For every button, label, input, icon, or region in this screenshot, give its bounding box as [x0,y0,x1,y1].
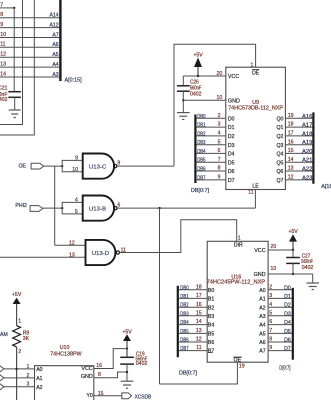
svg-text:12: 12 [69,241,75,247]
wire DB5 to U9 D5 (pin 7) [195,161,225,163]
svg-text:B1: B1 [208,297,214,303]
svg-text:DB5: DB5 [197,157,206,164]
svg-text:2: 2 [18,349,21,355]
wire U13-C input tie [61,160,63,172]
svg-text:0402: 0402 [0,97,8,103]
svg-text:A2: A2 [259,305,265,311]
svg-text:AM: AM [0,332,8,338]
svg-text:7: 7 [0,2,3,8]
wire net A12 (pin 9) [0,27,60,29]
svg-text:19: 19 [288,113,294,119]
wire GND (U10) [94,372,127,378]
wire DB1 to U16 B1 (pin 17) [178,297,207,299]
junction PHI2 at U13-B tie [61,207,63,209]
svg-text:B0: B0 [208,288,214,294]
svg-text:D5: D5 [284,329,291,335]
svg-text:U13-D: U13-D [92,251,109,257]
svg-text:11: 11 [196,345,201,351]
wire DB0 to U9 D0 (pin 2) [195,117,225,119]
svg-text:17: 17 [288,131,294,137]
svg-text:11: 11 [248,190,253,196]
svg-text:+5V: +5V [12,292,22,298]
ic U10 body (clipped) [35,366,94,400]
svg-text:A4: A4 [52,62,58,68]
svg-text:VCC: VCC [81,366,92,372]
svg-text:20: 20 [271,244,277,250]
svg-text:A12: A12 [49,22,58,28]
svg-text:U10: U10 [60,345,70,351]
wire U9 Q5 (pin 14) to A21 [285,161,313,163]
wire U13-D output (pin 11) to U16 DIR [119,220,236,253]
wire U16 A3 (pin 5) to D3 [268,315,293,317]
svg-text:16: 16 [196,302,202,308]
svg-text:A16: A16 [302,114,312,120]
svg-text:Q6: Q6 [276,169,283,175]
wire PHI2 to U13-B inputs [43,207,62,209]
wire U16 A1 (pin 3) to D1 [268,297,293,299]
junction +5V/VCC (U10) [126,347,128,349]
wire vertical crossing 2 (to left, lower) [0,0,34,135]
svg-text:+5V: +5V [122,329,132,335]
capacitor C26 [182,76,184,85]
junction R9/A0 [15,368,17,370]
svg-text:+5V: +5V [193,52,203,58]
svg-text:OE: OE [252,71,260,77]
svg-text:9: 9 [0,22,3,28]
wire U9 Q4 (pin 15) to A20 [285,152,313,154]
svg-text:DB3: DB3 [197,140,206,147]
svg-text:A1: A1 [36,376,42,382]
wire DB4 to U9 D4 (pin 6) [195,152,225,154]
wire DB6 to U9 D6 (pin 8) [195,170,225,172]
svg-text:11: 11 [121,248,126,254]
ic U16 body [207,241,268,362]
wire U9 Q1 (pin 18) to A17 [285,126,313,128]
svg-text:15: 15 [288,148,294,154]
svg-text:Q4: Q4 [276,152,283,158]
svg-text:Q2: Q2 [276,134,283,140]
junction GND/C19 [126,371,128,373]
wire R9 down across A inputs [16,347,18,400]
junction GND/C26 [182,99,184,101]
svg-text:18: 18 [288,122,294,128]
wire to U10 A1 (pin 2) [4,377,35,379]
wire U9 Q7 (pin 12) to A23 [285,179,313,181]
svg-text:D2: D2 [228,134,235,140]
bus A[16:23] [312,112,314,183]
svg-text:0402: 0402 [302,265,314,271]
svg-text:B7: B7 [208,349,214,355]
capacitor C21 [13,8,15,91]
svg-text:18: 18 [196,284,202,290]
svg-text:8: 8 [0,12,3,18]
svg-text:U13-C: U13-C [89,165,106,171]
svg-text:14: 14 [288,157,294,163]
wire net A4 (pin 13) [0,66,60,68]
bus DB[0:7] (U9 side) [194,115,196,184]
wire DB0 to U16 B0 (pin 18) [178,289,207,291]
connector pentagon A2 input (clipped) [0,384,4,390]
svg-text:A20: A20 [302,149,312,155]
svg-text:74HC138PW: 74HC138PW [50,351,82,357]
svg-text:A17: A17 [302,123,312,129]
svg-text:DB4: DB4 [180,320,189,327]
wire GND (U9) [183,99,226,101]
svg-text:D2: D2 [284,303,291,309]
ground (C19) [121,380,134,382]
svg-text:A7: A7 [52,32,58,38]
svg-text:D6: D6 [284,338,291,344]
wire GND (U16) [268,273,313,275]
svg-text:12: 12 [0,52,6,58]
junction +5V/VCC (U16) [292,249,294,251]
svg-text:1: 1 [18,318,21,324]
svg-text:D4: D4 [284,320,291,326]
R9 zigzag [13,326,21,347]
wire U16 OE (pin 19) to U13-B output branch [160,362,238,384]
svg-text:74HC245PW-112_NXP: 74HC245PW-112_NXP [207,280,266,286]
svg-text:A14: A14 [49,13,58,19]
svg-text:14: 14 [196,319,202,325]
svg-text:6: 6 [117,203,120,209]
svg-text:0402: 0402 [136,361,148,367]
svg-text:15: 15 [196,310,202,316]
svg-text:8: 8 [218,166,221,172]
svg-text:DB0: DB0 [180,285,189,292]
svg-text:A5: A5 [259,332,265,338]
svg-text:A6: A6 [52,42,58,48]
svg-text:Q1: Q1 [276,125,283,131]
svg-text:DB6: DB6 [180,337,189,344]
svg-text:DB7: DB7 [197,175,206,182]
svg-text:+5V: +5V [288,229,298,235]
svg-text:B5: B5 [208,332,214,338]
svg-text:U13-B: U13-B [89,207,106,213]
svg-text:DB7: DB7 [180,346,189,353]
svg-text:A0: A0 [36,367,42,373]
svg-text:B3: B3 [208,314,214,320]
svg-text:9: 9 [75,156,78,162]
wire U16 A5 (pin 7) to D5 [268,332,293,334]
svg-text:8: 8 [269,337,272,343]
svg-text:5: 5 [218,139,221,145]
svg-text:DB3: DB3 [180,311,189,318]
svg-text:4: 4 [218,131,221,137]
svg-text:PHI2: PHI2 [15,203,27,209]
wire U13-B input tie [61,202,63,215]
wire net A5 (pin 12) [0,56,60,58]
svg-text:GND: GND [81,374,93,380]
svg-text:560nF: 560nF [190,85,202,91]
wire vertical crossing 1 (to left, upper) [0,0,23,125]
junction U13-B output branch [158,207,160,209]
wire DB6 to U16 B6 (pin 12) [178,341,207,343]
svg-text:XCSDB: XCSDB [135,394,152,400]
nand gate U13-D [86,240,116,265]
svg-text:Q0: Q0 [276,116,283,122]
wire to U10 A2 (pin 3) [4,386,35,388]
svg-text:13: 13 [196,328,202,334]
svg-text:0402: 0402 [190,92,202,98]
svg-text:2: 2 [269,284,272,290]
bus DB[0:7] (U16 side) [177,286,179,358]
wire U13-B pin 4 [62,201,82,203]
svg-text:14: 14 [0,71,6,77]
wire DB3 to U16 B3 (pin 15) [178,315,207,317]
svg-text:D6: D6 [228,169,235,175]
wire DB5 to U16 B5 (pin 13) [178,332,207,334]
wire U16 A0 (pin 2) to D0 [268,289,293,291]
wire DB2 to U16 B2 (pin 16) [178,306,207,308]
ground (C26) [177,112,190,114]
svg-text:DB1: DB1 [180,294,189,301]
svg-text:D1: D1 [284,294,291,300]
svg-text:3: 3 [27,382,30,388]
wire U16 A6 (pin 8) to D6 [268,341,293,343]
svg-text:16: 16 [288,139,294,145]
svg-text:7: 7 [269,328,272,334]
svg-text:2: 2 [218,113,221,119]
svg-text:A21: A21 [302,158,312,164]
svg-text:DB[0:7]: DB[0:7] [191,188,209,194]
svg-text:1: 1 [27,364,30,370]
svg-text:Q5: Q5 [276,160,283,166]
wire U16 A2 (pin 4) to D2 [268,306,293,308]
wire DB4 to U16 B4 (pin 14) [178,324,207,326]
svg-text:7: 7 [218,157,221,163]
capacitor C19 [120,356,134,358]
svg-text:D7: D7 [228,178,235,184]
svg-text:13: 13 [0,62,6,68]
nand gate U13-C [83,154,114,179]
svg-text:DIR: DIR [234,242,243,248]
wire U13-C output (pin 8) to U9 OE [117,165,174,167]
svg-text:DB2: DB2 [180,302,189,309]
svg-text:560nF: 560nF [301,259,313,265]
svg-text:10: 10 [72,167,78,173]
wire branch down to U16 OE [159,208,161,384]
svg-text:D5: D5 [228,160,235,166]
svg-text:10: 10 [0,32,6,38]
svg-text:13: 13 [69,253,75,259]
wire net A14 (pin 8) [0,17,60,19]
svg-text:A19: A19 [302,140,312,146]
svg-text:10: 10 [217,95,223,101]
junction +5V/VCC [197,75,199,77]
svg-text:GND: GND [254,272,266,278]
svg-text:4: 4 [269,302,272,308]
svg-text:2: 2 [27,373,30,379]
connector pentagon XCSDB [122,393,132,399]
wire DB7 to U9 D7 (pin 9) [195,179,225,181]
wire U16 A4 (pin 6) to D4 [268,324,293,326]
connector pentagon A0 input (clipped) [0,366,4,372]
wire Y0 to XCSDB [94,395,122,397]
wire VCC (U9) [183,75,226,77]
svg-text:A3: A3 [52,72,58,78]
nand gate U13-B [83,196,114,221]
svg-text:D1: D1 [228,125,235,131]
svg-text:DB5: DB5 [180,329,189,336]
svg-text:8: 8 [98,372,101,378]
svg-text:A23: A23 [302,176,312,182]
wire U13-D pin 13 (from left) [0,256,86,258]
wire U9 Q6 (pin 13) to A22 [285,170,313,172]
svg-text:A[0:15]: A[0:15] [65,78,83,84]
svg-text:Q3: Q3 [276,143,283,149]
svg-text:LE: LE [252,184,259,190]
wire DB1 to U9 D1 (pin 3) [195,126,225,128]
svg-text:6: 6 [269,319,272,325]
svg-text:D4: D4 [228,152,235,158]
svg-text:A4: A4 [259,323,265,329]
wire U13-D pin 12 [55,244,86,246]
ic U9 body [226,67,286,189]
svg-text:B4: B4 [208,323,214,329]
wire U13-C pin 9 [62,159,82,161]
svg-text:C21: C21 [0,86,8,92]
svg-text:D[0:7]: D[0:7] [279,365,290,372]
svg-text:B6: B6 [208,340,214,346]
bus D[0:7] [292,288,294,360]
capacitor C27 [292,250,294,257]
svg-text:D7: D7 [284,346,291,352]
svg-text:19: 19 [239,363,245,369]
svg-text:6: 6 [218,148,221,154]
svg-text:A22: A22 [302,167,312,173]
svg-text:VCC: VCC [254,248,265,254]
wire net A3 (pin 14) [0,76,60,78]
connector pentagon PHI2 [30,206,43,212]
svg-text:Q7: Q7 [276,178,283,184]
svg-text:11: 11 [0,42,5,48]
wire DB7 to U16 B7 (pin 11) [178,350,207,352]
connector pentagon OE [31,163,44,169]
wire OE down to U13-D pin 12 [54,166,56,245]
wire DB2 to U9 D2 (pin 4) [195,135,225,137]
svg-text:OE: OE [19,163,27,169]
svg-text:4: 4 [75,198,78,204]
svg-text:DB1: DB1 [197,122,206,129]
svg-text:10: 10 [271,266,277,272]
wire U9 OE route (up/over) [174,44,256,166]
wire U9 Q3 (pin 16) to A19 [285,144,313,146]
wire OE to U13-C inputs [44,165,63,167]
svg-text:9: 9 [269,345,272,351]
svg-text:A0: A0 [259,288,265,294]
svg-text:DB[0:7]: DB[0:7] [179,371,197,377]
svg-text:DB6: DB6 [197,166,206,173]
svg-text:74HC573DB-112_NXP: 74HC573DB-112_NXP [228,106,283,112]
svg-text:13: 13 [288,166,294,172]
wire U9 Q0 (pin 19) to A16 [285,117,313,119]
svg-text:17: 17 [196,293,202,299]
svg-text:A6: A6 [259,340,265,346]
svg-text:GND: GND [228,98,240,104]
wire VCC (U10) to +5V [94,349,127,369]
svg-text:A5: A5 [52,52,58,58]
svg-text:Y0: Y0 [86,393,92,399]
svg-text:3K: 3K [23,336,30,342]
wire net A7 (pin 10) [0,37,60,39]
wire net A6 (pin 11) [0,46,60,48]
wire pin 7 (top-left chip) to C21 [0,7,14,9]
ground (C21) [9,109,21,111]
svg-text:A3: A3 [259,314,265,320]
wire to U10 A0 (pin 1) [4,368,35,370]
svg-text:3: 3 [269,293,272,299]
svg-text:5: 5 [75,209,78,215]
svg-text:A[16:23]: A[16:23] [321,184,331,190]
svg-text:1: 1 [251,62,254,68]
svg-text:D3: D3 [284,311,291,317]
svg-text:12: 12 [288,175,294,181]
svg-text:VCC: VCC [228,74,239,80]
svg-text:A1: A1 [259,297,265,303]
wire VCC (U16) [268,249,293,251]
wire U9 Q2 (pin 17) to A18 [285,135,313,137]
svg-text:1: 1 [238,235,241,241]
junction OE net at U13-C tie [61,165,63,167]
svg-text:B2: B2 [208,305,214,311]
svg-text:9: 9 [218,175,221,181]
svg-text:DB0: DB0 [197,113,206,120]
svg-text:DB4: DB4 [197,149,206,156]
svg-text:3: 3 [218,122,221,128]
wire U16 A7 (pin 9) to D7 [268,350,293,352]
svg-text:12: 12 [196,337,202,343]
svg-text:A2: A2 [36,385,42,391]
junction pin7/C21 [13,7,15,9]
wire U13-C pin 10 [62,171,82,173]
wire U13-B pin 5 [62,213,82,215]
connector pentagon A1 input (clipped) [0,375,4,381]
svg-text:A7: A7 [259,349,265,355]
wire LE riser [254,190,256,209]
svg-text:5: 5 [269,310,272,316]
bus A[0:15] [59,0,61,81]
svg-text:D0: D0 [228,116,235,122]
svg-text:A18: A18 [302,132,312,138]
svg-text:D3: D3 [228,143,235,149]
svg-text:D0: D0 [284,285,291,291]
svg-text:8: 8 [117,161,120,167]
wire DB3 to U9 D3 (pin 5) [195,144,225,146]
junction GND/C27 [292,273,294,275]
U16 pin name B7 underline [208,352,213,354]
ground (C27) [312,274,314,283]
svg-text:DB2: DB2 [197,131,206,138]
wire U13-B output (pin 6) to U9 LE [117,207,255,209]
